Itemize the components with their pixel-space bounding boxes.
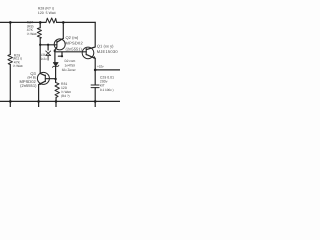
wire Q2 collector to rail [62, 22, 64, 38]
resistor R31 (zigzag) [55, 82, 59, 98]
node dot rail-Q2 collector [62, 21, 65, 24]
svg-text:Q2 (m): Q2 (m) [66, 35, 79, 40]
wire Q3 base [46, 78, 56, 80]
node dot bottom-C29 [94, 100, 97, 103]
transistor Q1 [82, 47, 95, 59]
svg-text:+62v: +62v [97, 65, 104, 69]
node dot rail-left column [9, 21, 12, 24]
zener D2 [53, 63, 59, 68]
wire R27 top lead [39, 22, 41, 27]
label R29 [13, 53, 23, 68]
wire R31 bottom lead [55, 97, 57, 107]
svg-text:(R4 ?): (R4 ?) [61, 94, 70, 98]
transistor Q2 [54, 38, 65, 51]
svg-text:R28 (R? t): R28 (R? t) [38, 7, 54, 11]
wire left column upper [9, 22, 11, 54]
wire right column down to Q1 collector [86, 22, 95, 49]
node dot R27-Q2 base [39, 44, 41, 46]
label D2 [62, 59, 77, 72]
svg-text:9.2v: 9.2v [41, 57, 47, 61]
wire bottom rail [0, 100, 120, 102]
svg-text:D2 com: D2 com [65, 59, 76, 63]
svg-text:½ Watt: ½ Watt [13, 64, 23, 68]
label Q2 [66, 35, 84, 51]
svg-text:MPSD02: MPSD02 [66, 41, 84, 46]
wire D2 top lead [54, 52, 56, 63]
wire top rail right [57, 21, 96, 23]
wire +62v output rail [95, 69, 120, 71]
svg-text:(2n5551): (2n5551) [20, 83, 37, 88]
label Q1 [97, 44, 119, 54]
zener CR1 [46, 51, 51, 56]
label R27 [27, 20, 37, 36]
label R28 [38, 7, 56, 16]
svg-text:(2n5551): (2n5551) [66, 46, 83, 51]
node dot CR1-Q2 base [47, 44, 49, 46]
wire R27 bottom / Q3 collector column [39, 38, 41, 73]
capacitor C29 [91, 85, 99, 88]
wire Q1 emitter down [94, 58, 96, 84]
resistor R27 (zigzag) [37, 28, 41, 39]
node dot bottom-Q3 emitter [37, 100, 40, 103]
node dot rail-R27 [39, 21, 42, 24]
svg-text:½ Watt: ½ Watt [27, 32, 37, 36]
wire C29 bottom lead [94, 88, 96, 107]
wire D2 bottom lead [55, 66, 57, 79]
transistor Q3 [37, 72, 49, 84]
node dot bottom-R31 [55, 100, 58, 103]
wire CR1 top lead [47, 45, 49, 50]
svg-text:120 5 Watt: 120 5 Watt [38, 11, 56, 15]
node dot D2 branch [61, 55, 63, 57]
wire Q2 base [40, 44, 57, 46]
resistor R28 (zigzag on top rail) [46, 18, 57, 23]
svg-text:0.1 100v ): 0.1 100v ) [100, 88, 114, 92]
wire top rail left [0, 21, 46, 23]
wire Q3 emitter down [38, 85, 40, 108]
wire left column lower [9, 65, 11, 107]
label CR1 [41, 53, 51, 61]
node dot +62v junction [94, 69, 97, 72]
svg-text:MJE15030: MJE15030 [97, 49, 119, 54]
label C29 [100, 76, 114, 92]
wire CR1 bottom lead [47, 56, 49, 61]
wire D2 branch stub [58, 52, 62, 56]
svg-text:62v Zener: 62v Zener [62, 68, 77, 72]
svg-text:1n4759: 1n4759 [65, 63, 76, 67]
wire R31 top lead [55, 79, 57, 82]
resistor R29 (zigzag) [8, 55, 12, 65]
node dot D2-R31-Q3 base [54, 78, 56, 80]
node dot bottom-left column [9, 100, 12, 103]
label R31 [61, 82, 71, 98]
label Q3 [19, 71, 37, 88]
wire Q2 emitter node to Q1 base [55, 51, 86, 53]
